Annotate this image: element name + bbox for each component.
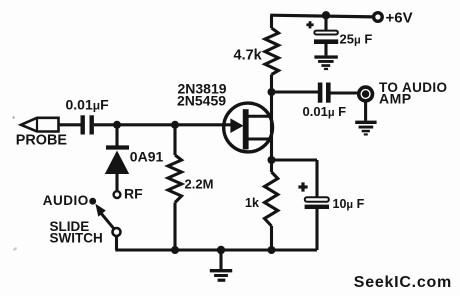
svg-text:AMP: AMP xyxy=(379,91,412,107)
svg-text:25μ F: 25μ F xyxy=(340,32,373,47)
svg-text:2N5459: 2N5459 xyxy=(177,93,226,109)
svg-text:4.7k: 4.7k xyxy=(234,48,263,64)
svg-text:+6V: +6V xyxy=(386,10,413,27)
svg-text:PROBE: PROBE xyxy=(16,133,68,149)
svg-text:SeekIC.com: SeekIC.com xyxy=(354,274,452,291)
svg-text:0A91: 0A91 xyxy=(130,149,164,165)
svg-text:10μ F: 10μ F xyxy=(333,197,365,211)
svg-text:AUDIO: AUDIO xyxy=(43,193,89,208)
svg-text:SWITCH: SWITCH xyxy=(50,230,103,245)
svg-text:RF: RF xyxy=(124,186,143,202)
svg-text:1k: 1k xyxy=(245,196,259,210)
svg-text:2.2M: 2.2M xyxy=(185,177,214,192)
svg-text:0.01μ F: 0.01μ F xyxy=(303,104,347,119)
svg-text:0.01μF: 0.01μF xyxy=(66,97,110,113)
